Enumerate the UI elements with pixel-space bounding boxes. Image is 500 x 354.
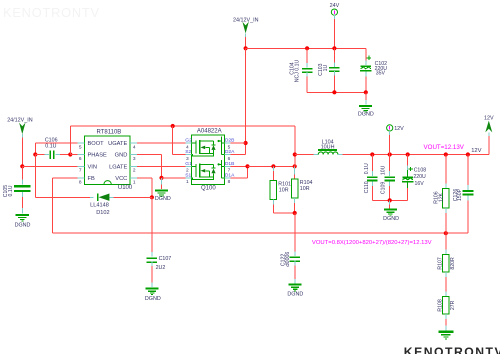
- svg-text:1: 1: [186, 179, 189, 185]
- svg-text:10U: 10U: [381, 165, 387, 175]
- diode D102 LL4148 bootstrap: [35, 155, 152, 217]
- svg-text:12V: 12V: [471, 148, 481, 154]
- svg-text:24/12V_IN: 24/12V_IN: [233, 17, 259, 23]
- Q100 pin 2 G1: [185, 161, 192, 174]
- svg-text:C110: C110: [364, 181, 370, 193]
- Q100 pin 4 G2: [185, 138, 192, 151]
- svg-text:R104: R104: [300, 180, 313, 186]
- svg-text:8: 8: [79, 179, 82, 185]
- svg-text:16V: 16V: [415, 181, 425, 187]
- U100 pin 6 PHASE: [78, 153, 107, 162]
- U100 pin 8 FB: [78, 176, 95, 185]
- junction GND/S1 node: [159, 176, 163, 180]
- power port 24/12V_IN (top middle arrow): [233, 17, 259, 36]
- wire D1B/D1A low-side drains to switch node: [231, 166, 248, 178]
- inductor L104 10UH: [295, 139, 373, 154]
- junction snubber bottoms: [293, 211, 297, 215]
- svg-text:VIN: VIN: [88, 165, 97, 171]
- svg-text:D2B: D2B: [225, 138, 235, 144]
- U100 pin 1 VCC: [115, 176, 137, 185]
- transistor Q100 lower N-MOSFET internals: [192, 160, 225, 179]
- svg-text:27R: 27R: [450, 300, 456, 310]
- wire 24V port down to rail: [333, 19, 335, 48]
- resistor R106 12K: [433, 155, 449, 234]
- svg-text:3: 3: [133, 156, 136, 162]
- ground DGND output caps: [383, 200, 399, 222]
- U100 pin 3 GND: [115, 153, 138, 162]
- Q100 pin 8 D1A: [225, 173, 235, 186]
- junction PHASE top line to S2 drop: [171, 124, 175, 128]
- logo KENOTRONTV bottom-right: [404, 345, 500, 354]
- capacitor C102 220U 35V electrolytic: [360, 48, 387, 92]
- svg-text:VOUT=12.13V: VOUT=12.13V: [424, 144, 465, 151]
- resistor R108 27R: [437, 296, 456, 330]
- svg-text:3: 3: [186, 156, 189, 162]
- U100 pin 7 VIN: [78, 165, 97, 174]
- junction D2B drain: [244, 141, 248, 145]
- svg-text:S2: S2: [185, 149, 191, 155]
- svg-text:8: 8: [228, 179, 231, 185]
- junction 24V/C103 on top rail: [332, 46, 336, 50]
- power port 24/12V_IN (left arrow): [7, 118, 33, 138]
- svg-text:4: 4: [133, 144, 136, 150]
- junction C108 top: [406, 152, 410, 156]
- junction R106 top: [444, 152, 448, 156]
- wire VOUT rail up to 12V arrow: [488, 136, 490, 155]
- ground below R108: [438, 331, 453, 340]
- wire switch node vertical: [294, 126, 296, 166]
- svg-text:BOOT: BOOT: [88, 141, 105, 147]
- power port 24V (circle): [330, 3, 340, 19]
- svg-text:GND: GND: [115, 153, 128, 159]
- net label 12V on VOUT rail: [471, 148, 481, 154]
- ground DGND below C107: [145, 287, 161, 302]
- wire D2B to input feed: [231, 142, 246, 144]
- svg-text:S1: S1: [185, 173, 191, 179]
- capacitor C110 0.1U: [364, 155, 378, 201]
- svg-text:5: 5: [79, 144, 82, 150]
- wire 12V port to VOUT rail: [389, 135, 391, 155]
- svg-text:2U2: 2U2: [156, 265, 166, 271]
- wire input feed down to Q100 drains: [231, 48, 246, 154]
- svg-text:DGND: DGND: [15, 223, 31, 229]
- transistor Q100 upper N-MOSFET internals: [192, 137, 225, 156]
- junction snubber R104 top / switch node drop: [293, 164, 297, 168]
- svg-text:10R: 10R: [279, 188, 289, 194]
- resistor R107 820R: [437, 233, 456, 296]
- junction top rail / input feed: [244, 46, 248, 50]
- svg-text:C108: C108: [414, 167, 427, 173]
- ground DGND below C122: [287, 284, 303, 298]
- wire S1 to ground node: [162, 177, 186, 179]
- svg-text:VOUT=0.8X(1200+820+27)/(820+27: VOUT=0.8X(1200+820+27)/(820+27)=12.13V: [312, 240, 432, 246]
- Q100 pin 1 S1: [185, 173, 191, 186]
- svg-text:PHASE: PHASE: [88, 153, 107, 159]
- Q100 pin 5 D2B: [225, 138, 235, 151]
- resistor R104 10R: [291, 166, 312, 213]
- capacitor C107 2U2 on VCC: [147, 197, 172, 287]
- capacitor C103 1U: [318, 48, 340, 92]
- svg-text:LL4148: LL4148: [90, 203, 109, 209]
- wire VIN node to pin 7: [22, 165, 77, 167]
- svg-text:6: 6: [79, 156, 82, 162]
- capacitor C126 150P: [453, 155, 473, 234]
- svg-text:R107: R107: [437, 257, 443, 270]
- U100 pin 5 BOOT: [78, 141, 105, 150]
- svg-text:DGND: DGND: [155, 196, 171, 202]
- svg-text:G2: G2: [185, 138, 192, 144]
- svg-text:DGND: DGND: [287, 292, 303, 298]
- svg-text:6: 6: [228, 156, 231, 162]
- op-amp controller U100 RT8110B box: [85, 130, 133, 191]
- junction C102 bottom / ground drop: [364, 90, 368, 94]
- Q100 pin 7 D1B: [225, 161, 235, 174]
- net label VOUT formula: [312, 240, 432, 246]
- svg-text:DGND: DGND: [358, 111, 374, 117]
- ground DGND below C105: [15, 214, 31, 229]
- junction D1 drains: [245, 164, 249, 168]
- wire BOOT pin to bootstrap node: [35, 143, 77, 155]
- svg-text:35V: 35V: [376, 71, 386, 77]
- svg-text:C107: C107: [159, 256, 172, 262]
- svg-text:10UH: 10UH: [321, 145, 335, 151]
- svg-text:NCJ 0.1U: NCJ 0.1U: [295, 60, 301, 83]
- wire top rail 24V: [246, 47, 366, 49]
- svg-text:Q100: Q100: [201, 186, 216, 192]
- capacitor C105 0.1U: [3, 166, 31, 213]
- svg-text:150P: 150P: [457, 188, 463, 201]
- svg-text:1: 1: [133, 179, 136, 185]
- transistor Q100 A04822A dual MOSFET box: [192, 128, 225, 191]
- svg-text:0.1U: 0.1U: [364, 163, 370, 174]
- svg-text:KENOTRONTV: KENOTRONTV: [404, 345, 500, 354]
- U100 pin 4 UGATE: [108, 141, 137, 150]
- ground DGND input cap bank: [358, 92, 374, 117]
- svg-text:C109: C109: [381, 182, 387, 195]
- svg-text:A04822A: A04822A: [197, 128, 222, 134]
- svg-text:24V: 24V: [330, 3, 340, 9]
- svg-text:9000P: 9000P: [283, 252, 289, 268]
- wire VOUT rail: [372, 154, 489, 156]
- svg-text:12V: 12V: [394, 126, 404, 132]
- capacitor C109 10U: [381, 155, 395, 201]
- ground DGND at U100: [155, 178, 171, 202]
- svg-text:220U: 220U: [413, 174, 426, 180]
- svg-text:0.1U: 0.1U: [45, 143, 56, 149]
- capacitor C108 220U 16V electrolytic: [402, 155, 426, 201]
- wire LGATE to G1: [137, 165, 186, 167]
- watermark KENOTRONTV top-left: [3, 5, 100, 20]
- wire PHASE node up and over to switch node: [70, 126, 294, 155]
- junction feedback divider: [444, 231, 448, 235]
- capacitor C104 NCJ 0.1U: [290, 48, 313, 92]
- svg-text:7: 7: [79, 168, 82, 174]
- wire GND pin to ground drop: [137, 155, 161, 178]
- svg-text:DGND: DGND: [145, 296, 161, 302]
- U100 pin 2 LGATE: [109, 165, 137, 174]
- svg-text:12K: 12K: [439, 192, 445, 202]
- svg-text:LGATE: LGATE: [109, 165, 127, 171]
- svg-text:UGATE: UGATE: [108, 141, 127, 147]
- wire switch node drain line: [248, 165, 295, 167]
- wire 24/12V_IN stem to top rail: [245, 37, 247, 49]
- svg-text:2: 2: [133, 168, 136, 174]
- junction C103 bottom: [332, 90, 336, 94]
- junction 12V port / C109 top: [388, 152, 392, 156]
- Q100 pin 3 S2: [185, 149, 191, 162]
- wire UGATE to G2: [137, 142, 186, 144]
- svg-text:RT8110B: RT8110B: [97, 130, 122, 136]
- junction VIN node: [20, 164, 24, 168]
- svg-text:820R: 820R: [450, 257, 456, 270]
- net label VOUT=12.13V: [424, 144, 465, 151]
- wire FB pin to feedback line: [52, 178, 77, 233]
- wire VCC pin to VCC node: [137, 178, 152, 197]
- junction C104 on top rail: [305, 46, 309, 50]
- wire left input down to VIN node: [21, 138, 23, 167]
- svg-text:U100: U100: [118, 185, 133, 191]
- svg-text:0.1U: 0.1U: [8, 185, 14, 196]
- wire S2 drop from phase line: [173, 126, 186, 155]
- capacitor C122 9000P snubber: [280, 213, 300, 283]
- svg-text:R101: R101: [278, 181, 291, 187]
- wire PHASE pin stub connection: [70, 154, 77, 156]
- junction snubber R101 top: [271, 164, 275, 168]
- capacitor C106 0.1U bootstrap: [35, 138, 70, 160]
- wire bottom rail of input cap bank: [307, 91, 366, 93]
- Q100 pin 6 D2A: [225, 149, 235, 162]
- junction C126 top: [466, 152, 470, 156]
- junction switch node on VOUT line: [293, 152, 297, 156]
- svg-text:R108: R108: [437, 299, 443, 312]
- svg-text:VCC: VCC: [115, 176, 127, 182]
- svg-text:KENOTRONTV: KENOTRONTV: [3, 5, 100, 20]
- svg-text:1U: 1U: [323, 65, 329, 72]
- svg-text:24/12V_IN: 24/12V_IN: [7, 118, 33, 124]
- svg-text:D2A: D2A: [225, 149, 235, 155]
- svg-text:DGND: DGND: [383, 216, 399, 222]
- wire output cap ground rail: [372, 199, 407, 201]
- svg-text:G1: G1: [185, 161, 192, 167]
- junction VCC / bootstrap diode node: [150, 195, 154, 199]
- junction output ground rail: [388, 198, 392, 202]
- junction bootstrap node at C106 left: [33, 152, 37, 156]
- junction C110 top: [370, 152, 374, 156]
- wire feedback line: [52, 232, 468, 234]
- junction PHASE node at C106 right: [68, 152, 72, 156]
- svg-text:FB: FB: [88, 176, 95, 182]
- resistor R101 10R: [270, 166, 295, 213]
- svg-text:12V: 12V: [484, 116, 494, 122]
- svg-text:10R: 10R: [300, 186, 310, 192]
- power port 12V (right arrow): [484, 116, 494, 136]
- svg-text:D102: D102: [96, 210, 109, 216]
- power port 12V (circle): [387, 125, 405, 135]
